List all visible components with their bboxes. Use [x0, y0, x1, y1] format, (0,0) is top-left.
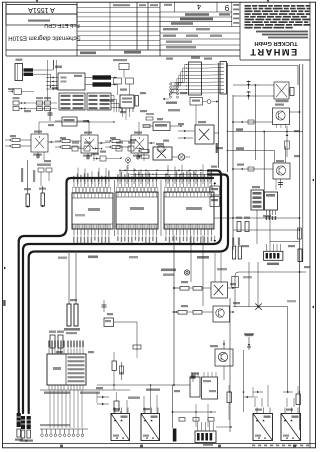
- resistor R26 top row: [128, 146, 134, 151]
- cpu ic D1 port section 3: [164, 192, 214, 229]
- A4 bottom dots: [146, 437, 148, 439]
- resistor R23 top row: [72, 146, 78, 151]
- bottom pin row X7: [40, 428, 88, 430]
- fan RN1 right to X6: [204, 63, 220, 66]
- cpu ic D1 port section 2: [116, 192, 158, 229]
- label of Q1 cluster: [33, 154, 42, 156]
- resistor Ra1: [180, 287, 189, 291]
- transistor driver Q5 cluster: [195, 125, 214, 144]
- field text Gepr row: [163, 28, 178, 30]
- resistor left-a of Q2 cluster: [62, 140, 70, 143]
- border tick top-left: [36, 0, 39, 2]
- resistor R45: [227, 392, 231, 403]
- bus pair label SBUS: [216, 143, 218, 153]
- arrow up inside thick loop: [213, 182, 216, 184]
- cluster chain wires: [55, 141, 60, 143]
- transistor stage Q6 box: [273, 108, 290, 125]
- field text Entwurf: [171, 22, 193, 25]
- small cluster above F4: [38, 168, 44, 172]
- resistor R24 top row: [84, 146, 90, 151]
- risers from S1 down: [122, 112, 124, 117]
- border tick left: [4, 267, 6, 270]
- zener V9: [248, 337, 250, 350]
- wire feeds to left modules: [113, 407, 115, 413]
- border grid numeral bottom 2: [140, 445, 143, 448]
- fan wires RN1 to pin group: [171, 65, 187, 83]
- parts at x137: [133, 345, 141, 349]
- wire X2 down b: [257, 262, 259, 307]
- dip-switch S1: [120, 95, 134, 108]
- dc-dc module A6: [281, 414, 301, 441]
- A6 bottom dots: [286, 437, 288, 439]
- resistor row left r1b: [13, 107, 19, 111]
- cpu ic D1 bottom pin number strip: [73, 224, 76, 229]
- power label 11.5: [88, 256, 98, 259]
- pin group label PL 50: [166, 102, 177, 104]
- address bus above cpu: [119, 169, 209, 171]
- A3 top pins: [114, 408, 116, 414]
- revision table header text: [113, 4, 130, 6]
- ic U15 small: [190, 377, 200, 397]
- company address lines: [256, 31, 308, 33]
- wires right of label boxes: [111, 96, 114, 113]
- page inner border bottom: [3, 443, 316, 445]
- capacitor below Q2 cluster: [87, 153, 89, 160]
- connector X6 sil: [220, 62, 227, 95]
- diode V14: [253, 391, 263, 393]
- wire from U14: [114, 321, 138, 323]
- eprom label box U8: [59, 93, 85, 110]
- cluster inside thick loop box a: [210, 186, 220, 195]
- cpu ic D1 pin number strip: [73, 187, 76, 192]
- title block benennung row line: [6, 49, 240, 51]
- A6 internal label: [292, 416, 299, 418]
- diode V1: [248, 81, 250, 90]
- capacitor below Q1 cluster: [37, 152, 39, 159]
- wire risers above cpu: [77, 168, 79, 184]
- cluster row feed wires: [38, 122, 40, 134]
- wire relay A1 out: [228, 287, 234, 289]
- resistor R40: [50, 335, 55, 348]
- resistor R33 pill: [298, 249, 302, 262]
- label of Q3 cluster: [133, 155, 142, 157]
- ic U3 inverse label bar 2: [93, 82, 112, 86]
- wires D2 to bottom connector: [49, 390, 51, 428]
- field text Blatt fuer: [185, 13, 209, 16]
- resistor left-a of Q1 cluster: [12, 139, 20, 142]
- A5 internal arrows: [256, 420, 259, 422]
- connector X2 row: [264, 251, 283, 260]
- enclosure wire y272: [235, 272, 306, 307]
- resistor R35 vertical: [298, 228, 302, 239]
- resistor row Rr2: [193, 418, 199, 422]
- A4 internal label: [151, 416, 158, 418]
- wire X8 up links: [195, 404, 197, 427]
- wires into Q2 cluster: [70, 140, 81, 142]
- riser above module A4: [150, 385, 152, 400]
- A5 internal label: [264, 416, 271, 418]
- wires around Q8: [223, 340, 225, 349]
- wire opto input bottom: [233, 95, 274, 97]
- wire rail x174: [173, 236, 175, 386]
- page inner border right: [309, 2, 311, 448]
- diode into Q7: [233, 168, 273, 170]
- field text Zeichnungsnummer: [180, 18, 213, 21]
- connector X5 left edge: [15, 64, 23, 81]
- wire right rail B: [302, 64, 304, 262]
- dc-dc module A3: [111, 414, 130, 441]
- Q6 bottom pin ticks: [276, 125, 278, 129]
- A6 internal arrows: [284, 420, 287, 422]
- svg-text:Pcb ETF-CPU: Pcb ETF-CPU: [44, 22, 79, 28]
- resistor left-b of Q2 cluster: [62, 146, 70, 149]
- ic U13 driver: [265, 192, 278, 210]
- resistor row left r3a: [45, 101, 51, 105]
- resistor R43 vertical: [112, 361, 116, 371]
- wire x287 down: [287, 307, 289, 392]
- horizontal feed row y385: [97, 384, 190, 386]
- relay driver A2 box: [213, 306, 230, 322]
- fuse labels: [64, 328, 80, 331]
- long wire JC y131.5: [227, 131, 303, 133]
- border tick top-right: [267, 0, 270, 2]
- border tick right: [312, 179, 314, 182]
- transistor driver Q1 cluster: [31, 134, 48, 152]
- resistor row left r2a: [37, 101, 43, 105]
- fuse F3 pill: [26, 194, 29, 207]
- resistor left-b of Q4: [141, 155, 149, 158]
- diode V8 vertical arrow up: [286, 126, 288, 157]
- resistor row Rr1: [179, 418, 185, 422]
- A3 internal label: [121, 416, 128, 418]
- title label Benennung left: [80, 52, 96, 55]
- wire row under D2: [40, 389, 130, 391]
- diode V10 mid: [285, 146, 287, 163]
- wire top-right feed: [227, 65, 298, 67]
- capacitor below Q3 cluster: [137, 153, 139, 160]
- resistor Rb2: [193, 311, 202, 315]
- revision table rows: [77, 7, 160, 9]
- resistor R31 vertical pair: [245, 222, 249, 232]
- inverse label bar K1: [24, 68, 34, 71]
- diode V15: [283, 391, 293, 393]
- ic D2 top pins: [48, 349, 50, 355]
- box U14 small: [104, 318, 114, 327]
- fuse F6 pill: [74, 304, 78, 326]
- vertical feeds left top: [47, 60, 49, 101]
- ic U12 watchdog: [251, 190, 264, 210]
- wires left rows to eprom: [30, 102, 57, 104]
- capacitor C9 below Q7: [280, 179, 282, 188]
- bus wires in ic gaps: [114, 180, 116, 236]
- field small row text: [166, 41, 192, 43]
- narrow column tiny rows: [233, 4, 239, 6]
- ic D2 controller: [47, 354, 86, 385]
- junction dots left rail: [173, 287, 175, 289]
- lamp symbol H1: [178, 154, 184, 160]
- vertical rail x230 lower: [229, 298, 231, 432]
- title block replacement row: [6, 14, 77, 25]
- header text Zust: [164, 4, 172, 6]
- bus W2 end lug: [21, 416, 25, 429]
- wires into Q3 cluster: [120, 140, 131, 142]
- company copyright paragraph: [245, 5, 251, 7]
- wire Q6 out: [290, 111, 300, 113]
- cpu ic D1 top pin stubs and labels: [73, 183, 75, 187]
- pin group PL50: [170, 83, 172, 85]
- wire below Q2 cluster: [93, 153, 95, 161]
- wire below Q3 cluster: [143, 153, 145, 161]
- wire X2 top right link: [270, 241, 300, 243]
- misc label marks: [217, 268, 227, 270]
- wire risers above ic D2: [52, 348, 54, 354]
- border tick right low: [312, 306, 314, 309]
- revision table outline: [76, 3, 78, 57]
- cpu ic D1 port section 1: [72, 193, 113, 229]
- cpu ic D1 bottom pin stubs and labels: [73, 229, 75, 236]
- A4 internal arrows: [144, 420, 147, 422]
- A6 top pins: [284, 408, 286, 414]
- resistor left-a of Q3 cluster: [112, 140, 120, 143]
- resistor network RN1 box: [189, 62, 202, 95]
- svg-text:A 1551A: A 1551A: [28, 6, 55, 13]
- bus W3 end lug: [27, 416, 31, 429]
- ic U3 inverse label bar 1: [93, 75, 112, 79]
- box on rail x233: [232, 277, 239, 288]
- resistor R8: [290, 88, 294, 96]
- resistor R44: [114, 401, 119, 411]
- long wire JD y150.5: [227, 151, 275, 164]
- arrow down inside thick loop: [213, 240, 216, 242]
- cpu ic D1 section1 pin grid: [73, 193, 75, 198]
- field text Datum Name row: [163, 35, 176, 37]
- wires down to X2: [256, 210, 258, 244]
- eprom label box U9: [87, 93, 111, 110]
- wire rail x243.5: [243, 350, 245, 412]
- diode right of Q1 cluster: [48, 141, 55, 143]
- label of Q2 cluster: [83, 155, 92, 157]
- border grid numeral left: [3, 300, 5, 306]
- capacitor C12: [192, 373, 194, 382]
- bottom connector X8: [195, 431, 216, 443]
- cluster inside thick loop box b: [210, 197, 220, 207]
- diode marks left rows: [21, 102, 23, 104]
- bus W1 end lug: [17, 413, 21, 427]
- resistor Ra2: [193, 287, 202, 291]
- diode right of Q2 cluster: [98, 142, 105, 144]
- diode into Q6 lower: [233, 121, 273, 123]
- title block left edge: [5, 2, 7, 56]
- test point TP1: [184, 270, 189, 275]
- driver box U11: [153, 122, 170, 131]
- wires into Q1 cluster: [20, 139, 31, 141]
- wire row y412: [173, 411, 217, 413]
- ic D2 bottom pins: [48, 385, 50, 390]
- diode V12: [97, 396, 109, 398]
- ic U3 interface: [58, 73, 85, 90]
- sheet field cell lines: [174, 2, 176, 12]
- cross junction: [256, 304, 262, 310]
- optocoupler U7: [274, 82, 289, 99]
- svg-text:4: 4: [197, 3, 201, 12]
- resistor R34 pill: [238, 246, 241, 259]
- component value labels sprinkle: [34, 131, 42, 133]
- cpu ic D1 section3 pin grid: [165, 192, 167, 197]
- resistor R20: [146, 117, 153, 120]
- svg-text:Schematic diagram E510H: Schematic diagram E510H: [8, 34, 80, 41]
- diode left-a of Q5: [178, 130, 193, 132]
- wire X2 down a: [248, 262, 250, 307]
- A3 internal arrows: [114, 420, 117, 422]
- wire X8 to rail: [216, 426, 231, 428]
- transistor driver Q3 cluster: [131, 135, 148, 153]
- diode left-b of Q5: [178, 137, 193, 139]
- fuse pill F7: [173, 429, 177, 442]
- wire y306 long: [233, 306, 288, 308]
- fuse F4 pill: [41, 193, 44, 206]
- capacitor C11: [103, 300, 105, 312]
- resistor R30 vertical pair: [237, 222, 241, 232]
- arrow feed right of ICs: [244, 396, 252, 398]
- wire right rail to modules: [299, 391, 301, 393]
- relay A1 top feeds: [214, 253, 216, 282]
- control box U10: [62, 117, 77, 126]
- diode V21 top row: [136, 148, 144, 150]
- resistor left of Q4: [141, 150, 149, 153]
- wire bus right horizontals: [214, 217, 300, 219]
- svg-text:9: 9: [224, 3, 229, 12]
- thick bus wire W3: [29, 175, 228, 414]
- oscillator cluster Y1: [119, 64, 129, 70]
- wire node MA3: [53, 60, 55, 69]
- svg-text:EMHART: EMHART: [249, 47, 297, 57]
- transistor stage Q7 box: [273, 163, 290, 179]
- A3 bottom dots: [116, 437, 118, 439]
- resistor R5: [135, 96, 138, 107]
- data bus above cpu: [130, 173, 209, 175]
- arrow into C4: [93, 158, 100, 160]
- thick bus wire W2: [23, 171, 221, 414]
- transistor stage Q8 box: [215, 349, 233, 366]
- wire vertical rail x233: [232, 95, 234, 250]
- resistor row Rr3: [208, 418, 214, 422]
- svg-text:TUCKER GmbH: TUCKER GmbH: [254, 40, 297, 46]
- wire rail x203: [202, 236, 204, 307]
- wire rail x191: [190, 236, 192, 283]
- border grid numeral bottom 1: [60, 445, 63, 448]
- diode V20 top row: [92, 148, 100, 150]
- transistor driver Q4 cluster: [153, 147, 172, 160]
- cpu ic D1 section2 pin grid: [117, 192, 119, 197]
- vertical net label left b: [33, 170, 35, 182]
- arrow right of circle: [216, 100, 218, 102]
- title label Benennung mid: [124, 51, 141, 54]
- arrow below pin group: [163, 98, 165, 100]
- resistor row left r1a: [13, 101, 19, 105]
- resistor Rb1: [178, 311, 187, 315]
- wire relay A2 out: [230, 311, 234, 313]
- wire vertical rail x255: [254, 85, 256, 160]
- wire Q5 to bus: [214, 132, 219, 134]
- wire feeds to right modules: [254, 398, 256, 407]
- wire RN1 box down to Q5: [195, 105, 197, 125]
- wire right rail A: [299, 64, 301, 430]
- resistor R25 top row: [116, 146, 122, 151]
- resistor R46: [296, 394, 300, 405]
- dc-dc module A5: [253, 414, 273, 441]
- border grid numeral bottom 3: [218, 445, 221, 448]
- dc-dc module A4: [141, 414, 160, 441]
- capacitor C4: [49, 109, 51, 121]
- wire below Q1 cluster: [43, 152, 45, 160]
- company block divider: [239, 3, 241, 61]
- resistor R32 pill: [233, 246, 236, 259]
- diode V2: [248, 91, 250, 100]
- resistor row left r3b: [45, 107, 51, 111]
- diode V13: [97, 403, 109, 405]
- wire top row 1: [70, 148, 72, 150]
- test point labels: [161, 269, 176, 272]
- diode right of Q3 cluster: [148, 142, 155, 144]
- A4 top pins: [144, 408, 146, 414]
- title block revision-number box A 1551A: [6, 5, 77, 15]
- inverse label bar K2: [24, 73, 34, 76]
- resistor R41: [58, 335, 63, 348]
- border grid numeral bottom 4: [293, 445, 296, 448]
- power label 11.6: [197, 256, 209, 259]
- wire rail x172.5 lower: [172, 385, 174, 428]
- wire riser node2: [127, 162, 129, 170]
- junction labels row mid: [100, 100, 114, 102]
- resistor R27 top row: [158, 146, 164, 151]
- capacitor C4b: [100, 156, 106, 161]
- circle part right of box: [207, 100, 211, 104]
- resistor row left r2b: [37, 107, 43, 111]
- wires from X5 bars: [33, 69, 54, 71]
- diode V11 vertical: [121, 362, 123, 380]
- resistor left-b of Q1 cluster: [12, 145, 20, 148]
- bottom border dashes: [252, 445, 255, 447]
- node symbol circled-2: [126, 158, 131, 163]
- wire vertical rail x264: [263, 132, 265, 193]
- A5 bottom dots: [258, 437, 260, 439]
- transistor driver Q2 cluster: [81, 135, 98, 153]
- wire opto input top: [233, 84, 274, 86]
- relay driver A1 box: [211, 282, 228, 298]
- ic U16 small: [202, 377, 218, 399]
- resistor left-b of Q3 cluster: [112, 146, 120, 149]
- fuse F5 pill: [67, 304, 71, 326]
- box below RN1: [190, 98, 203, 106]
- thick bus wire W1: [19, 178, 213, 413]
- vertical net label left a: [21, 168, 23, 182]
- labels above modules left: [128, 397, 140, 399]
- title block bottom line: [6, 55, 240, 57]
- bus pair from X6: [217, 63, 219, 168]
- resistor R2: [14, 89, 22, 95]
- A5 top pins: [256, 408, 258, 414]
